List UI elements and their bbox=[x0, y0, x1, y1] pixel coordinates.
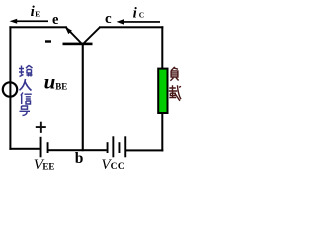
battery VCC plate 2 (tall) bbox=[112, 136, 114, 157]
wire bottom segment left (corner to VEE) bbox=[9, 148, 39, 150]
wire top-left horizontal (e to left corner) bbox=[9, 26, 67, 28]
wire right vertical bbox=[161, 26, 163, 151]
transistor Q1 base lead wire bbox=[82, 45, 84, 151]
wire bottom segment right (VCC to right corner) bbox=[126, 149, 163, 151]
label 负 (load) bbox=[170, 67, 178, 81]
label 信 (blue) bbox=[21, 93, 32, 105]
wire bottom segment middle (VEE to VCC through node b) bbox=[48, 149, 106, 151]
arrow iC (current arrow pointing left) bbox=[120, 21, 160, 23]
transistor Q1 emitter diagonal bbox=[66, 28, 81, 44]
transistor Q1 emitter arrowhead bbox=[65, 27, 72, 34]
svg-text:C: C bbox=[139, 11, 144, 20]
polarity minus sign bbox=[45, 40, 51, 42]
svg-text:EE: EE bbox=[42, 161, 54, 171]
wire top-right horizontal (c to right corner) bbox=[99, 26, 163, 28]
battery VEE negative plate (short) bbox=[47, 142, 49, 153]
battery VCC plate 4 (tall) bbox=[124, 136, 126, 157]
transistor Q1 base bar bbox=[63, 43, 93, 46]
svg-text:c: c bbox=[105, 11, 112, 27]
arrow iE (current arrow pointing left) bbox=[13, 20, 48, 22]
svg-text:u: u bbox=[44, 70, 56, 94]
svg-text:BE: BE bbox=[55, 81, 67, 91]
polarity plus sign bbox=[36, 126, 46, 128]
battery VCC plate 3 (short) bbox=[119, 142, 121, 153]
svg-text:e: e bbox=[52, 12, 59, 28]
battery VEE positive plate (tall) bbox=[40, 137, 42, 158]
svg-text:i: i bbox=[133, 6, 138, 22]
battery VCC plate 1 (short) bbox=[107, 142, 109, 153]
svg-text:b: b bbox=[75, 150, 84, 167]
label 输 (blue) bbox=[19, 65, 33, 76]
label 号 (blue) bbox=[20, 106, 31, 116]
svg-text:CC: CC bbox=[111, 162, 126, 172]
label 载 (load) bbox=[169, 85, 181, 101]
label 入 (blue) bbox=[20, 79, 32, 91]
wire left vertical bbox=[9, 26, 11, 150]
signal source circle bbox=[3, 82, 17, 96]
load resistor (green rectangle) bbox=[158, 69, 167, 113]
svg-text:E: E bbox=[35, 9, 40, 18]
transistor Q1 collector diagonal bbox=[84, 27, 100, 43]
